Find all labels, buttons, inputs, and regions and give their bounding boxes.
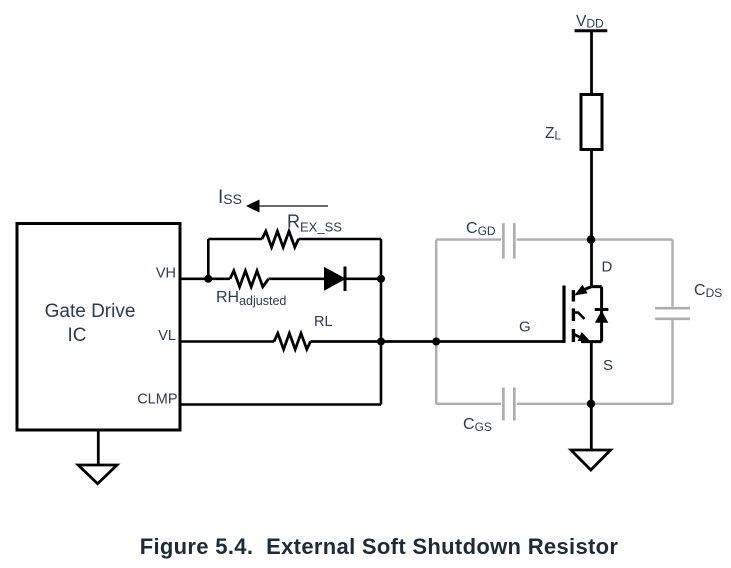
junction diode output [377, 275, 385, 283]
source connection diagonal with arrow [573, 334, 581, 338]
svg-text:ISS: ISS [218, 187, 242, 208]
svg-text:CDS: CDS [694, 282, 722, 300]
resistor ZL (load) [581, 95, 602, 150]
svg-text:Gate Drive: Gate Drive [45, 301, 136, 322]
junction RL-bus [377, 338, 385, 346]
current arrow ISS [246, 200, 328, 213]
wire diode to right vertical [345, 277, 381, 280]
svg-text:RL: RL [314, 314, 333, 330]
svg-text:VL: VL [158, 328, 176, 344]
diode D1 [325, 267, 346, 292]
capacitor CGS [503, 388, 514, 421]
svg-text:D: D [602, 259, 613, 276]
channel segment middle [572, 308, 575, 321]
wire VH to resistor RH [180, 277, 230, 280]
wire RH to diode [269, 277, 325, 280]
svg-text:Figure 5.4. External Soft Shu: Figure 5.4. External Soft Shutdown Resis… [140, 534, 619, 559]
svg-text:CGD: CGD [466, 220, 496, 238]
resistor REX_SS [262, 231, 299, 247]
svg-text:G: G [519, 319, 531, 336]
svg-text:S: S [603, 357, 613, 374]
wire gray right vertical (drain side) [671, 240, 673, 404]
svg-text:REX_SS: REX_SS [287, 212, 342, 235]
body connection tick [573, 313, 584, 320]
wire right vertical bus (REX_SS/VH/RL/CLMP) [380, 239, 383, 405]
drain connection diagonal with arrow into channel [581, 287, 602, 291]
wire gray bottom (CGS) [436, 403, 672, 405]
svg-text:CGS: CGS [463, 416, 492, 434]
channel segment top [572, 290, 575, 301]
junction gate-CGD/CGS [432, 338, 440, 346]
svg-text:RHadjusted: RHadjusted [216, 289, 286, 308]
resistor RH_adjusted [230, 271, 269, 287]
resistor RL [274, 333, 311, 349]
wire source to ground [590, 342, 593, 450]
svg-text:CLMP: CLMP [137, 392, 177, 408]
wire REX_SS branch left vertical [207, 239, 210, 279]
ground (IC) [78, 430, 117, 484]
wire RL to gate bar [311, 340, 565, 343]
wire ZL to drain node [590, 150, 593, 288]
svg-text:VDD: VDD [576, 13, 604, 31]
wire CLMP [180, 403, 381, 406]
transistor Q1 N-MOSFET with body diode [564, 285, 608, 343]
body diode triangle [595, 311, 608, 323]
body diode cathode bar [595, 308, 609, 311]
junction drain-CGD [587, 235, 595, 243]
IC U1 Gate Drive IC box [17, 224, 180, 431]
junction VH-REX_SS [204, 275, 212, 283]
body diode branch [600, 287, 603, 342]
gray coupling-capacitor network: wire CGD top [436, 238, 672, 240]
svg-text:IC: IC [68, 325, 87, 346]
wire REX_SS branch top right [299, 238, 382, 241]
junction source-CGS/CDS [587, 400, 595, 408]
wire VDD to ZL [590, 31, 593, 95]
wire REX_SS branch top left [208, 238, 262, 241]
svg-text:ZL: ZL [545, 125, 561, 143]
capacitor CDS [655, 308, 690, 319]
power VDD [575, 13, 608, 31]
ground (source) [571, 450, 611, 470]
channel segment bottom [572, 329, 575, 342]
gate bar [562, 286, 565, 343]
wire gray left vertical (gate side) [435, 240, 437, 404]
svg-text:VH: VH [156, 266, 176, 282]
wire VL / RL line to gate [180, 340, 274, 343]
capacitor CGD [503, 223, 514, 258]
